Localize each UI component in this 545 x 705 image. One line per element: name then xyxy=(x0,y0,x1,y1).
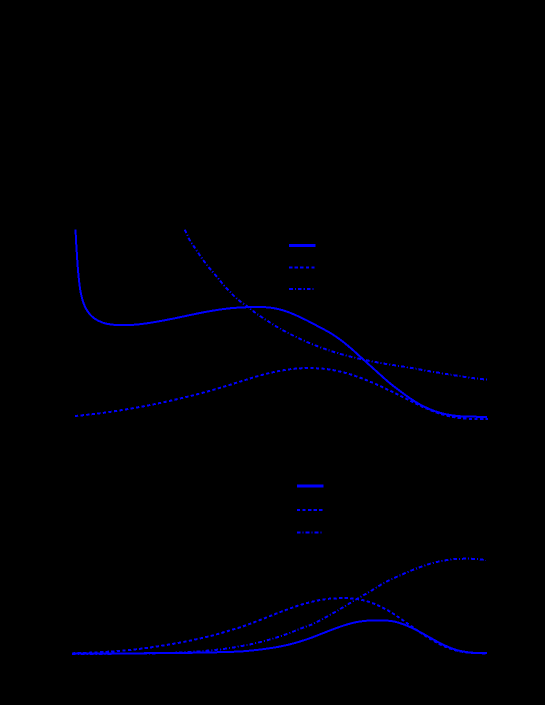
top legend sample: solid xyxy=(289,244,315,247)
top plot: dash-dot curve xyxy=(185,230,487,380)
bottom plot: dash-dot curve xyxy=(72,559,486,654)
bottom legend sample: solid xyxy=(297,484,324,487)
bottom plot: dashed curve xyxy=(72,598,487,653)
bottom legend sample: dashed xyxy=(297,509,324,511)
top plot: solid curve xyxy=(76,230,488,417)
bottom legend sample: dash-dot xyxy=(297,531,324,533)
top legend sample: dashed xyxy=(289,267,315,269)
top legend sample: dash-dot xyxy=(289,288,315,290)
bottom plot: solid curve xyxy=(72,620,487,653)
top plot: dashed curve xyxy=(75,368,488,419)
